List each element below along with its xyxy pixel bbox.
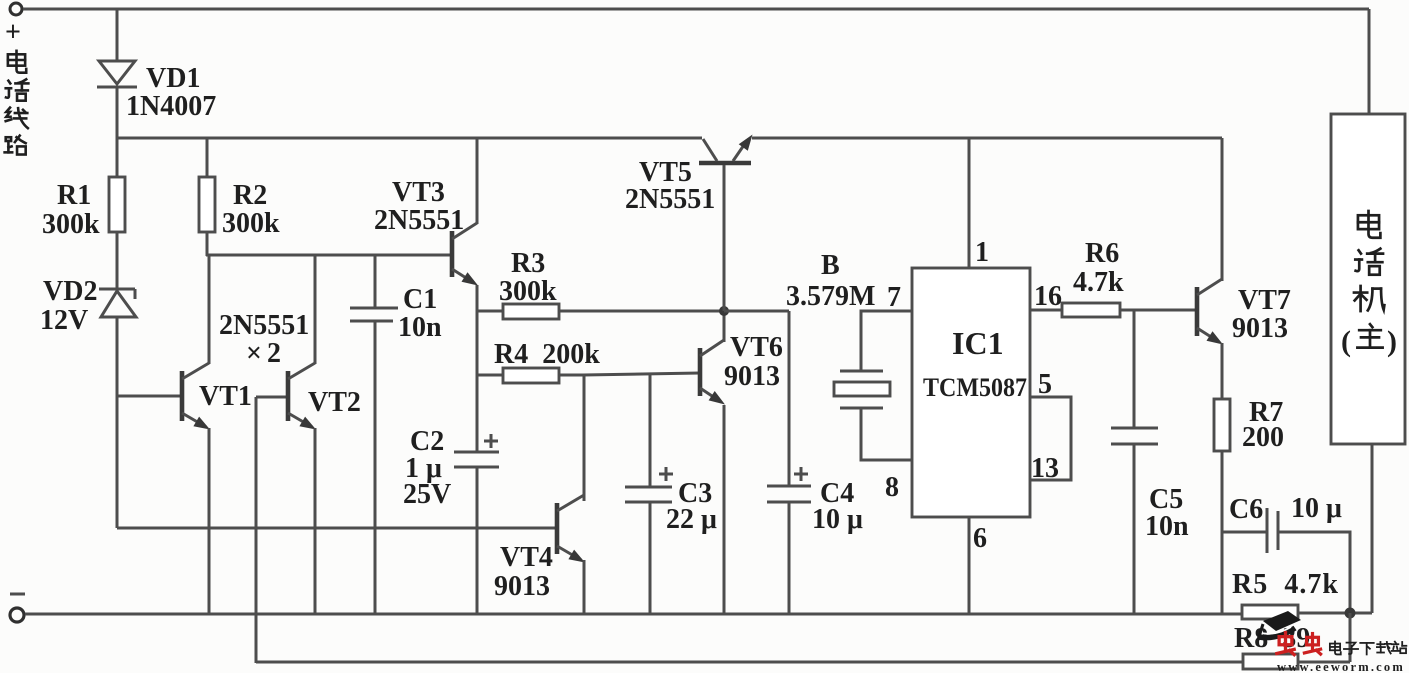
wire bottom rail right of R5 xyxy=(1298,612,1372,615)
svg-text:×2: ×2 xyxy=(246,338,286,369)
svg-text:R2: R2 xyxy=(233,180,267,211)
wire VT4 emitter drop xyxy=(583,560,586,614)
transistor VT7 xyxy=(1197,279,1223,345)
svg-text:2N5551: 2N5551 xyxy=(219,310,309,341)
wire node drop to R8 rail xyxy=(1349,613,1352,662)
wire R8 right lead xyxy=(1298,661,1350,664)
svg-text:VD1: VD1 xyxy=(146,63,200,94)
wire VT2 base drop to R8 rail xyxy=(255,397,258,663)
phone box 电话机(主) xyxy=(1331,114,1405,444)
node junction dot R3/VT5/VT6 xyxy=(719,306,729,316)
wire R7 bottom drop xyxy=(1221,451,1224,614)
transistor VT1 xyxy=(182,363,210,430)
svg-text:7: 7 xyxy=(887,282,901,313)
wire rail2 right of VT5 xyxy=(752,137,1222,140)
wire pin1 riser xyxy=(968,138,971,268)
minus sign xyxy=(10,593,25,596)
resistor R3 xyxy=(503,304,559,319)
svg-text:10n: 10n xyxy=(398,312,442,343)
svg-text:1N4007: 1N4007 xyxy=(126,91,216,122)
wire VT7 emitter to R7 xyxy=(1221,343,1224,399)
wire C5 top riser xyxy=(1133,310,1136,428)
svg-text:22 μ: 22 μ xyxy=(666,504,717,535)
svg-text:1: 1 xyxy=(975,237,989,268)
svg-text:C6: C6 xyxy=(1229,494,1263,525)
wire VT2 base xyxy=(256,396,288,399)
svg-text:VT7: VT7 xyxy=(1238,285,1291,316)
svg-text:9013: 9013 xyxy=(724,361,780,392)
wire R2 bottom riser xyxy=(206,232,209,256)
wire VD1 anode drop xyxy=(116,9,119,61)
wire VT3 emitter drop to C2 xyxy=(476,285,479,452)
wire R2 top riser xyxy=(206,138,209,177)
watermark 虫虫 red xyxy=(1277,633,1294,655)
wire base rail to VT3 xyxy=(206,254,451,257)
wire R3 right lead to node xyxy=(559,310,724,313)
transistor VT5 xyxy=(699,135,753,164)
capacitor C3 xyxy=(625,487,672,502)
svg-text:8: 8 xyxy=(885,472,899,503)
resistor R6 xyxy=(1062,303,1120,317)
watermark cap logo xyxy=(1258,611,1301,640)
wire C4 bottom drop xyxy=(788,502,791,614)
wire rail2 (second horizontal rail) xyxy=(117,137,702,140)
wire pin16 lead xyxy=(1030,309,1062,312)
svg-text:2N5551: 2N5551 xyxy=(625,184,715,215)
wire VT2 collector riser xyxy=(314,255,317,364)
wire pin5-pin13 loop xyxy=(1030,397,1071,480)
wire VT3 collector riser xyxy=(476,138,479,224)
wire R6 to VT7 base xyxy=(1120,309,1197,312)
label 电话线路 vertical xyxy=(8,51,26,73)
wire C1 top riser xyxy=(374,255,377,307)
svg-text:6: 6 xyxy=(973,523,987,554)
svg-text:TCM5087: TCM5087 xyxy=(923,373,1027,402)
wire C6 left lead xyxy=(1222,531,1267,534)
wire VT7 collector riser xyxy=(1221,138,1224,281)
svg-text:R6: R6 xyxy=(1085,238,1119,269)
capacitor C2 plus sign xyxy=(484,434,498,448)
capacitor C2 xyxy=(454,452,499,467)
wire R1 bottom to VD2 xyxy=(116,232,119,289)
svg-text:VT4: VT4 xyxy=(500,542,553,573)
svg-text:5: 5 xyxy=(1038,369,1052,400)
svg-text:300k: 300k xyxy=(42,209,100,240)
resistor R8 xyxy=(1243,654,1298,669)
resistor R5 xyxy=(1242,605,1298,619)
capacitor C6 xyxy=(1267,508,1278,553)
node junction dot bottom right xyxy=(1345,608,1356,619)
transistor VT6 xyxy=(700,340,725,405)
IC1 TCM5087 box xyxy=(912,268,1030,517)
svg-text:10n: 10n xyxy=(1145,511,1189,542)
wire pin6 drop xyxy=(968,517,971,614)
resistor R2 xyxy=(199,177,215,232)
wire VT1 collector riser xyxy=(208,255,211,364)
wire C3 top riser xyxy=(649,373,652,487)
watermark 电子下载站 xyxy=(1330,641,1341,654)
wire VT6 emitter drop xyxy=(723,405,726,614)
svg-text:25V: 25V xyxy=(403,479,451,510)
resistor R7 xyxy=(1214,399,1230,451)
diode VD1 xyxy=(97,61,137,87)
svg-text:10 μ: 10 μ xyxy=(812,504,863,535)
wire C5 bottom drop xyxy=(1133,444,1136,614)
svg-text:R5 4.7k: R5 4.7k xyxy=(1232,569,1338,600)
wire VT2 emitter drop xyxy=(314,428,317,614)
capacitor C1 xyxy=(350,308,398,321)
svg-text:VT2: VT2 xyxy=(308,387,361,418)
svg-text:R1: R1 xyxy=(57,180,91,211)
wire VT1 emitter drop xyxy=(208,428,211,614)
svg-text:B: B xyxy=(821,250,840,281)
svg-text:VD2: VD2 xyxy=(43,276,97,307)
wire VT4 base rail xyxy=(117,527,557,530)
svg-text:10 μ: 10 μ xyxy=(1291,493,1342,524)
wire C3 bottom drop xyxy=(649,502,652,614)
label 电话机(主) vertical xyxy=(1358,211,1380,238)
crystal B body xyxy=(834,382,890,396)
zener diode VD2 xyxy=(99,289,136,317)
wire VT1 base xyxy=(117,395,182,398)
svg-text:www.eeworm.com: www.eeworm.com xyxy=(1277,660,1405,673)
svg-text:300k: 300k xyxy=(499,276,557,307)
wire C4 top riser xyxy=(788,311,791,486)
wire R4 right lead to VT6 base xyxy=(559,373,700,375)
transistor VT4 xyxy=(557,495,585,563)
svg-text:(: ( xyxy=(1341,325,1351,358)
svg-text:VT1: VT1 xyxy=(199,381,252,412)
wire C6 right lead down to node xyxy=(1278,532,1350,613)
svg-text:16: 16 xyxy=(1034,281,1062,312)
wire top rail xyxy=(23,8,1369,11)
resistor R1 xyxy=(109,177,125,232)
svg-text:3.579M: 3.579M xyxy=(786,281,875,312)
capacitor C4 xyxy=(767,486,811,502)
wire R4 left lead xyxy=(477,374,503,377)
wire R3 left lead xyxy=(477,310,503,313)
capacitor C5 xyxy=(1111,428,1158,444)
wire crystal bottom lead pin8 xyxy=(861,408,912,460)
svg-text:300k: 300k xyxy=(222,208,280,239)
svg-text:9013: 9013 xyxy=(494,571,550,602)
svg-text:R4 200k: R4 200k xyxy=(494,339,600,370)
wire VT4 collector riser xyxy=(583,374,586,501)
svg-text:IC1: IC1 xyxy=(952,325,1004,361)
svg-text:13: 13 xyxy=(1031,453,1059,484)
wire VT5 base drop to node xyxy=(723,165,726,311)
wire node to C4 riser xyxy=(724,310,789,313)
svg-text:C1: C1 xyxy=(403,284,437,315)
terminal + (telephone line positive) xyxy=(10,3,22,15)
transistor VT2 xyxy=(288,363,316,430)
wire VD1 cathode to rail2 and R1 top xyxy=(116,87,119,177)
svg-text:4.7k: 4.7k xyxy=(1073,267,1124,298)
wire VT6 collector riser to node xyxy=(723,311,726,342)
svg-text:200: 200 xyxy=(1242,422,1284,453)
svg-text:2N5551: 2N5551 xyxy=(374,205,464,236)
svg-text:12V: 12V xyxy=(40,305,88,336)
capacitor C3 plus sign xyxy=(659,467,673,481)
svg-text:VT6: VT6 xyxy=(730,332,783,363)
capacitor C4 plus sign xyxy=(794,467,808,481)
wire phone box bottom drop xyxy=(1371,444,1374,613)
svg-text:R3: R3 xyxy=(511,248,545,279)
wire R8 rail xyxy=(256,661,1243,664)
svg-text:+: + xyxy=(5,17,21,48)
crystal B plates xyxy=(840,371,883,408)
wire C2 bottom drop xyxy=(476,467,479,614)
wire bottom rail left of R5 xyxy=(25,613,1242,616)
terminal - (telephone line negative) xyxy=(10,608,24,622)
wire phone box drop xyxy=(1368,9,1371,114)
svg-text:9013: 9013 xyxy=(1232,313,1288,344)
svg-text:VT3: VT3 xyxy=(392,177,445,208)
wire crystal top lead pin7 xyxy=(861,311,912,371)
transistor VT3 xyxy=(452,223,478,286)
wire VD2 anode down to VT4 base rail xyxy=(116,317,119,528)
svg-text:): ) xyxy=(1387,325,1397,358)
resistor R4 xyxy=(503,368,559,383)
wire C1 bottom drop xyxy=(374,322,377,614)
